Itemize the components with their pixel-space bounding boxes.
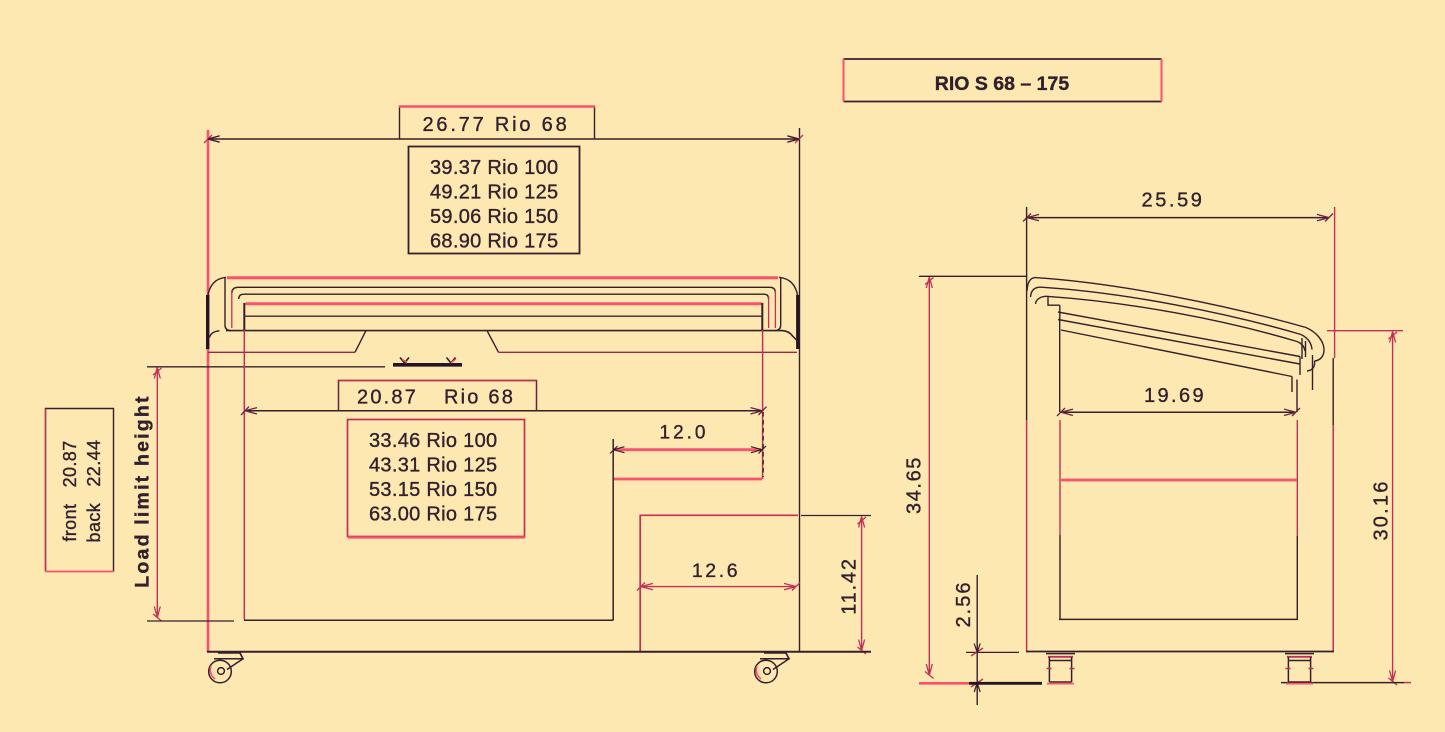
label box 26.77 Rio 68 xyxy=(400,107,595,140)
dimension line 12.6 xyxy=(641,586,796,588)
svg-text:25.59: 25.59 xyxy=(1141,190,1204,212)
arrow left of 26.77 xyxy=(204,135,220,143)
lid outer left corner arc xyxy=(208,277,226,297)
svg-text:Rio 68: Rio 68 xyxy=(444,387,515,409)
left shoulder maroon line xyxy=(208,351,355,353)
base line xyxy=(207,651,871,653)
svg-text:Load limit height: Load limit height xyxy=(132,394,154,587)
svg-text:26.77 Rio 68: 26.77 Rio 68 xyxy=(422,114,569,136)
caster front-right xyxy=(755,653,789,683)
svg-text:34.65: 34.65 xyxy=(904,456,926,514)
body outer right wall xyxy=(1332,358,1334,425)
inner right dashed overlay xyxy=(762,412,764,477)
floor line dark xyxy=(969,682,1042,685)
dimension line 20.87 xyxy=(245,410,763,412)
lid nose right xyxy=(1306,328,1324,362)
inner wall right xyxy=(1296,380,1298,413)
svg-text:53.15 Rio 150: 53.15 Rio 150 xyxy=(369,479,497,501)
inner wall left crimson xyxy=(243,330,245,620)
extension 25.59 right crimson xyxy=(1334,207,1336,358)
interior step wall xyxy=(612,439,614,620)
lid glass edge verticals xyxy=(243,303,245,330)
lid line 2b vertical crimson left xyxy=(231,290,233,328)
svg-text:49.21 Rio 125: 49.21 Rio 125 xyxy=(430,182,558,204)
extension 2.56 mid xyxy=(966,651,1019,653)
extension 34.65 top xyxy=(919,275,1027,277)
extension 25.59 left / body outer left wall xyxy=(1026,207,1028,420)
dimension line 25.59 xyxy=(1027,217,1329,219)
svg-text:59.06 Rio 150: 59.06 Rio 150 xyxy=(430,206,558,228)
svg-text:12.0: 12.0 xyxy=(660,423,709,444)
left shoulder slant xyxy=(355,331,366,353)
lid thick right edge xyxy=(796,295,799,349)
extension line right (dark) xyxy=(799,128,801,652)
floor line pink xyxy=(919,682,969,685)
lid line 2 dark xyxy=(232,287,775,293)
inner wall left xyxy=(1059,317,1061,412)
caster side-right xyxy=(1285,654,1314,684)
label box 33.46-63.00 xyxy=(348,420,525,537)
extension 30.16 top xyxy=(1327,330,1403,332)
dimension line 11.42 vertical xyxy=(861,517,863,651)
svg-text:19.69: 19.69 xyxy=(1144,385,1206,407)
FRONT VIEW GROUP xyxy=(46,107,872,683)
svg-text:43.31 Rio 125: 43.31 Rio 125 xyxy=(369,455,497,477)
lid outer shell bottom-left fillet xyxy=(210,331,220,338)
caster front-left xyxy=(209,653,243,683)
lid inner left vertical xyxy=(225,278,231,331)
svg-text:11.42: 11.42 xyxy=(839,557,861,615)
load limit marker arrows xyxy=(400,358,409,364)
load limit extension line bottom xyxy=(147,620,234,622)
label box Rio 100-175 widths xyxy=(409,147,580,254)
right shoulder maroon line xyxy=(499,351,798,353)
lid thick left edge xyxy=(206,295,209,349)
inner wall right crimson xyxy=(762,330,764,479)
SIDE VIEW GROUP xyxy=(844,59,1412,705)
lid line 3 dark xyxy=(239,294,769,299)
caster side-left xyxy=(1046,654,1075,684)
load limit line side pink xyxy=(1060,479,1297,482)
title box RIO S 68 - 175 xyxy=(844,59,1162,102)
dimension line 19.69 xyxy=(1061,411,1296,413)
extension line left (pink) xyxy=(207,130,210,652)
svg-text:33.46 Rio 100: 33.46 Rio 100 xyxy=(369,430,497,452)
svg-text:12.6: 12.6 xyxy=(692,560,740,582)
lid line 4 pink xyxy=(246,302,763,305)
lid outer right corner arc xyxy=(779,277,798,297)
dimension line 2.56 xyxy=(976,575,978,705)
inner bottom xyxy=(1059,618,1298,620)
extension line 11.42 top xyxy=(801,515,871,517)
svg-text:30.16: 30.16 xyxy=(1371,479,1393,540)
arrow right of 26.77 xyxy=(787,135,803,143)
dimension line 30.16 xyxy=(1392,332,1394,682)
interior bottom line xyxy=(244,619,614,621)
lid side profile curves xyxy=(1027,278,1324,392)
lid line 5 dark xyxy=(244,315,762,317)
svg-text:68.90 Rio 175: 68.90 Rio 175 xyxy=(430,231,558,253)
lid inner right vertical xyxy=(775,278,781,331)
svg-text:RIO S 68 – 175: RIO S 68 – 175 xyxy=(935,73,1070,95)
load limit marker thick bar xyxy=(393,363,462,367)
body base line xyxy=(1026,651,1334,653)
load limit dimension line vertical xyxy=(156,368,158,618)
svg-text:20.87: 20.87 xyxy=(357,387,418,409)
lid bottom line xyxy=(226,331,798,341)
dimension line 12.0 pink xyxy=(614,448,761,451)
right shoulder slant xyxy=(487,331,499,353)
svg-text:39.37 Rio 100: 39.37 Rio 100 xyxy=(430,157,558,179)
load limit extension line top xyxy=(147,366,385,368)
compressor box crimson xyxy=(640,515,798,651)
dimension line 34.65 xyxy=(928,277,930,675)
label box 20.87 Rio 68 xyxy=(339,381,537,411)
svg-text:63.00 Rio 175: 63.00 Rio 175 xyxy=(369,504,497,526)
svg-text:front 20.87: front 20.87 xyxy=(60,440,80,541)
svg-text:back 22.44: back 22.44 xyxy=(84,440,104,543)
extension 30.16 bottom xyxy=(1281,682,1404,684)
dimension line 26.77 xyxy=(209,138,799,140)
label box front/back xyxy=(46,409,114,572)
lid top pink line xyxy=(227,276,778,279)
interior step top pink xyxy=(614,478,762,481)
svg-text:2.56: 2.56 xyxy=(953,581,975,628)
